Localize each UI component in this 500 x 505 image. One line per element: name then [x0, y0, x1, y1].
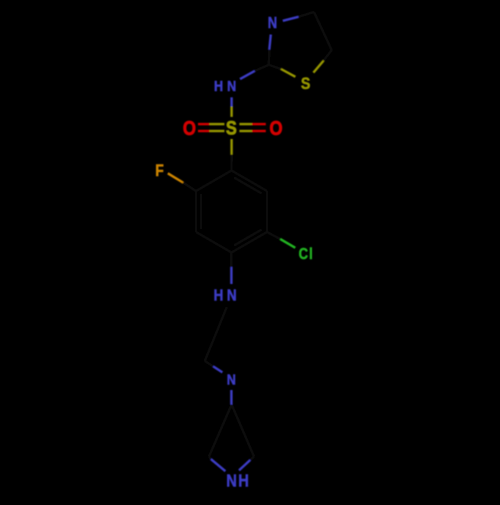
svg-text:N: N [226, 471, 237, 490]
svg-text:F: F [155, 162, 163, 180]
svg-text:O: O [269, 116, 282, 139]
svg-text:N: N [227, 77, 236, 94]
svg-text:N: N [227, 287, 237, 304]
svg-text:S: S [226, 117, 237, 139]
bond N3-C4 [283, 17, 299, 21]
bond Cl-C3 [280, 239, 295, 248]
svg-text:O: O [183, 116, 196, 139]
bond C1-C2 benzene (faint) [232, 171, 268, 192]
bond C3az-CH2R azetidine (faint) [232, 405, 254, 457]
wire N3-C4 carbon half (faint) [298, 12, 314, 17]
bond N aniline-CH2 linker (faint) [205, 307, 227, 361]
thiazole ring bonds (colored halves) [232, 17, 299, 107]
svg-text:H: H [238, 471, 249, 490]
bond C6-C1 benzene (faint) [196, 171, 232, 192]
bond C2-C3 benzene (faint) [266, 191, 268, 232]
bond S=O left, S half [210, 123, 225, 125]
bond N tertiary - C3 azetidine [230, 390, 232, 405]
wire N(H)-C2 carbon half (faint) [255, 65, 269, 71]
wire CH2L-NH carbon half (faint) [209, 457, 211, 460]
svg-text:l: l [309, 246, 313, 263]
bond F-C6 [168, 173, 183, 182]
bond C3-C4 benzene (faint) [232, 232, 268, 253]
bond C3=C4 inner line (faint) [234, 230, 262, 246]
svg-text:C: C [299, 246, 308, 263]
bond C4aryl-NH aniline [230, 267, 232, 284]
bond C4-C5 thiazole (faint carbon) [314, 12, 332, 50]
bond C4-C5 benzene (faint) [196, 232, 232, 253]
wire S1-C5 carbon half (faint) [324, 50, 332, 61]
wire N3=C2 carbon half (faint) [268, 50, 271, 65]
bond N(H)-S upper half [230, 97, 232, 106]
svg-text:N: N [227, 370, 236, 387]
svg-text:H: H [214, 77, 223, 94]
wire S-C1 carbon half (faint) [230, 155, 232, 171]
bond C5=C6 inner line (faint) [200, 194, 202, 229]
wire F-C6 carbon half (faint) [183, 183, 196, 191]
bond S=O right, O half [252, 123, 266, 125]
bond S1-C2 thiazole [281, 69, 295, 77]
bond N3=C2 [269, 35, 271, 50]
bond N(H)-C2 thiazole side [240, 71, 255, 79]
wire CH2R-NH carbon half (faint) [250, 457, 254, 461]
bond CH2R-NH azetidine [239, 460, 250, 470]
bond S-C1 aryl [230, 139, 232, 155]
bond S=O left, O half [198, 123, 210, 125]
bond C1=C2 inner line (faint) [234, 178, 262, 194]
wire S1-C2 carbon half (faint) [269, 65, 281, 69]
bond S=O right, S half [239, 123, 252, 125]
bond CH2-N tertiary [213, 366, 222, 372]
bond C5-C6 benzene (faint) [195, 191, 197, 232]
svg-text:H: H [214, 287, 224, 304]
wire C4-N aniline carbon half (faint) [230, 253, 232, 268]
bond CH2L-NH azetidine [211, 459, 225, 471]
wire CH2-N tertiary carbon half (faint) [205, 361, 213, 367]
bond C3az-CH2L azetidine (faint) [209, 405, 232, 457]
atom labels [155, 15, 313, 491]
svg-text:N: N [268, 15, 277, 32]
wire Cl-C3 carbon half (faint) [267, 232, 280, 239]
svg-text:S: S [301, 75, 311, 93]
bond S1-C5 thiazole [313, 61, 323, 73]
bond N(H)-S lower half [230, 107, 232, 117]
